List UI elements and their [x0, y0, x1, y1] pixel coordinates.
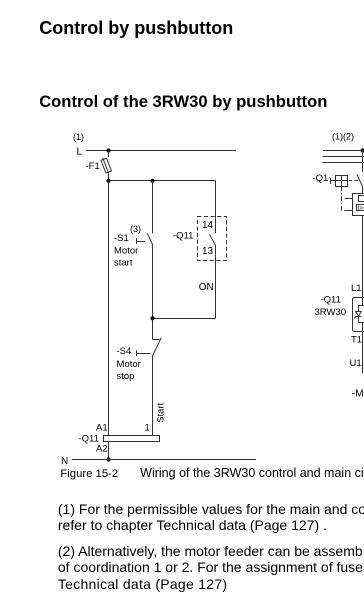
overload release element I> upper	[359, 196, 364, 202]
soft starter 3RW30 box	[353, 298, 364, 332]
terminal label A2	[96, 444, 108, 455]
svg-text:-F1: -F1	[86, 161, 100, 172]
paragraph 2	[58, 543, 363, 592]
motor label -M	[352, 389, 364, 400]
wire starter to motor	[362, 332, 364, 374]
note label (1)(2)	[332, 132, 354, 142]
wire S1 lower lead	[152, 245, 154, 318]
wire Q11 aux lower lead	[215, 246, 217, 319]
breaker Q1 actuator and mechanism box	[331, 176, 348, 187]
svg-text:-Q11: -Q11	[321, 294, 341, 305]
wire Q11 aux branch upper lead	[215, 181, 217, 234]
junction feedback node	[150, 316, 154, 320]
svg-text:-Q1: -Q1	[313, 173, 329, 184]
wire left branch to A1	[108, 181, 110, 436]
thyristor with bypass inside 3RW30	[354, 298, 364, 332]
junction on N	[106, 457, 110, 461]
svg-text:A1: A1	[96, 423, 108, 434]
svg-text:(1): (1)	[73, 132, 84, 142]
label ON	[199, 282, 214, 293]
node label (1)	[73, 132, 84, 142]
wire L1 pole lower lead	[362, 187, 364, 194]
wire S1 branch upper lead	[152, 181, 154, 234]
svg-text:Start: Start	[155, 402, 166, 422]
svg-text:-M: -M	[352, 389, 364, 400]
svg-text:L: L	[77, 147, 83, 158]
contactor label -Q11	[173, 231, 193, 242]
svg-text:Motor: Motor	[117, 359, 141, 370]
wire phase line L2	[323, 156, 364, 158]
trip connector upper	[345, 198, 353, 200]
Q11 aux contact dashed enclosure	[198, 217, 227, 261]
svg-text:Motor: Motor	[114, 245, 138, 256]
label N	[61, 456, 68, 467]
wire L supply line	[86, 150, 236, 152]
wire top rail	[109, 180, 216, 182]
wire phase line L1	[323, 150, 364, 152]
device label -Q11	[79, 434, 99, 445]
heading 2	[39, 92, 327, 112]
overload release element I> lower	[357, 205, 364, 213]
wire feedback link horizontal	[153, 318, 216, 320]
junction top rail / S1 branch	[150, 179, 154, 183]
note label (3)	[130, 224, 141, 234]
terminal strip box of 3RW30	[104, 436, 160, 442]
junction on phase L1	[361, 148, 364, 152]
wire A2 to N	[108, 442, 110, 460]
svg-text:stop: stop	[117, 371, 135, 382]
svg-text:ON: ON	[199, 282, 214, 293]
breaker Q1 label	[313, 173, 329, 184]
terminal label U1	[350, 358, 362, 369]
Q11 aux NO contact blade	[209, 234, 215, 246]
pushbutton S1 labels	[114, 233, 138, 269]
pin label 13	[202, 246, 214, 257]
svg-text:start: start	[114, 257, 133, 268]
terminal label A1	[96, 423, 108, 434]
wire L1 pole upper lead	[362, 151, 364, 172]
wire S4 upper lead	[152, 319, 154, 340]
overload release box	[353, 194, 364, 216]
junction at fuse output	[106, 179, 110, 183]
svg-text:3RW30: 3RW30	[315, 307, 347, 318]
soft starter label 3RW30	[315, 307, 347, 318]
soft starter label -Q11	[321, 294, 341, 305]
figure caption	[60, 466, 364, 480]
label Start (rotated)	[155, 402, 166, 422]
wire breaker to soft starter	[362, 216, 364, 298]
svg-text:(3): (3)	[130, 224, 141, 234]
node L label	[77, 147, 83, 158]
pin label 14	[202, 220, 214, 231]
wire N line	[72, 459, 256, 461]
fuse F1 label	[86, 161, 100, 172]
wire phase line L3	[323, 162, 364, 164]
trip connector lower	[344, 210, 352, 212]
trip linkage dash-dot vertical	[341, 187, 343, 212]
svg-text:L1: L1	[351, 283, 362, 294]
svg-text:14: 14	[202, 220, 214, 231]
pushbutton S4 labels	[117, 346, 141, 382]
svg-text:-S4: -S4	[117, 346, 132, 357]
svg-text:I>: I>	[357, 205, 363, 212]
breaker Q1 pole blade	[357, 175, 363, 187]
svg-text:1: 1	[145, 423, 150, 434]
pushbutton S4 NC contact symbol	[137, 338, 162, 356]
svg-text:(1)(2): (1)(2)	[332, 132, 354, 142]
svg-text:-Q11: -Q11	[173, 231, 193, 242]
terminal label L1	[351, 283, 362, 294]
paragraph 1	[58, 501, 364, 533]
wire S4 lower lead	[152, 356, 154, 436]
svg-text:U1: U1	[350, 358, 362, 369]
svg-text:A2: A2	[96, 444, 108, 455]
breaker Q1 linkage dashes	[349, 180, 358, 182]
svg-text:-S1: -S1	[114, 233, 129, 244]
pushbutton S1 NO contact symbol	[137, 233, 154, 245]
terminal label T1	[351, 335, 362, 346]
heading 1	[39, 18, 233, 39]
fuse-disconnector F1 symbol	[101, 151, 111, 181]
svg-text:T1: T1	[351, 335, 362, 346]
junction on L at fuse	[106, 148, 110, 152]
svg-text:13: 13	[202, 246, 214, 257]
terminal label 1	[145, 423, 150, 434]
